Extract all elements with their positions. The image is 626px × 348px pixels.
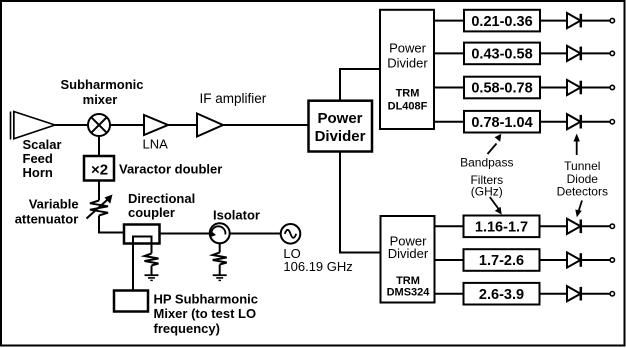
svg-text:Subharmonic: Subharmonic — [60, 77, 143, 92]
svg-text:Horn: Horn — [23, 165, 53, 180]
tunnel diode detector 2 — [567, 46, 615, 61]
svg-text:0.58-0.78: 0.58-0.78 — [471, 81, 532, 97]
resistor termination under coupler — [145, 254, 159, 275]
channel 5: wire — [435, 225, 464, 227]
svg-text:Tunnel: Tunnel — [564, 159, 600, 173]
label LO 106.19 GHz — [283, 246, 352, 274]
svg-text:Power: Power — [317, 110, 362, 127]
variable attenuator — [87, 199, 109, 219]
bandpass filter 0.43-0.58 — [464, 43, 540, 65]
svg-text:Varactor doubler: Varactor doubler — [119, 162, 222, 177]
svg-text:Power: Power — [389, 41, 427, 56]
bandpass filter 0.21-0.36 — [464, 10, 540, 32]
svg-text:Directional: Directional — [128, 191, 195, 206]
svg-text:0.78-1.04: 0.78-1.04 — [471, 115, 532, 131]
wire filter to diode — [540, 293, 568, 295]
bandpass filter 2.6-3.9 — [464, 283, 540, 305]
wire coupler to isolator — [160, 233, 210, 235]
svg-text:0.43-0.58: 0.43-0.58 — [471, 47, 532, 63]
svg-text:Scalar: Scalar — [23, 137, 62, 152]
arrow Detectors label to diode 5 — [575, 201, 582, 218]
wire horn to mixer — [55, 124, 88, 126]
tunnel diode detector 3 — [567, 80, 615, 95]
wire filter to diode — [540, 52, 567, 54]
svg-text:TRM: TRM — [396, 275, 420, 287]
svg-text:IF amplifier: IF amplifier — [200, 91, 267, 106]
wire attenuator to coupler — [99, 216, 124, 233]
bandpass filter 1.16-1.7 — [464, 216, 540, 238]
wire divider to TRM DMS324 — [340, 152, 381, 253]
isolator (circulator circle with arrow) — [210, 223, 230, 243]
label HP Subharmonic Mixer — [154, 292, 259, 337]
wire IF amp to power divider — [223, 124, 308, 126]
subharmonic mixer (circle with X) — [88, 114, 110, 136]
bandpass filter 0.78-1.04 — [464, 111, 540, 133]
wire mixer to LNA — [110, 124, 144, 126]
channel 7: wire — [435, 293, 464, 295]
wire filter to diode — [540, 259, 568, 261]
tunnel diode detector 6 — [567, 252, 615, 267]
wire divider to TRM DL408F — [340, 69, 380, 100]
svg-text:HP Subharmonic: HP Subharmonic — [154, 292, 259, 307]
amplifier LNA — [144, 115, 168, 135]
svg-text:Divider: Divider — [315, 128, 366, 145]
svg-text:106.19 GHz: 106.19 GHz — [283, 259, 352, 274]
label Bandpass Filters (GHz) — [460, 156, 513, 199]
ground under isolator resistor — [213, 275, 227, 280]
svg-text:Bandpass: Bandpass — [460, 156, 513, 170]
channel 1: wire — [434, 20, 464, 22]
power divider main box — [309, 101, 373, 152]
tunnel diode detector 4 — [567, 114, 615, 129]
svg-text:TRM: TRM — [396, 88, 420, 100]
wire LNA to IF amplifier — [168, 124, 197, 126]
label Tunnel Diode Detectors — [557, 159, 608, 199]
svg-text:2.6-3.9: 2.6-3.9 — [479, 287, 524, 303]
arrow (GHz) label to 1.16-1.7 filter — [490, 197, 502, 215]
amplifier IF — [197, 114, 223, 137]
svg-text:frequency): frequency) — [154, 321, 220, 336]
arrow Bandpass label to 0.78-1.04 filter — [488, 134, 502, 154]
svg-text:×2: ×2 — [91, 162, 108, 179]
wire filter to diode — [540, 20, 567, 22]
channel 6: wire — [435, 259, 464, 261]
channel 3: wire — [434, 87, 464, 89]
label Directional coupler — [128, 191, 195, 220]
resistor termination under isolator — [213, 243, 227, 274]
oscillator LO (circle with sine) — [281, 224, 301, 244]
svg-text:LNA: LNA — [143, 137, 169, 152]
tunnel diode detector 7 — [567, 286, 615, 301]
wire x2 to attenuator — [98, 181, 100, 201]
wire filter to diode — [540, 225, 568, 227]
directional coupler — [124, 225, 160, 244]
svg-text:Mixer (to test LO: Mixer (to test LO — [154, 306, 257, 321]
arrow Tunnel label to diode 4 — [574, 134, 580, 156]
svg-text:1.7-2.6: 1.7-2.6 — [479, 253, 524, 269]
svg-text:attenuator: attenuator — [15, 212, 79, 227]
bandpass filter 1.7-2.6 — [464, 249, 540, 271]
label Subharmonic mixer — [60, 77, 143, 107]
svg-text:Divider: Divider — [387, 56, 428, 71]
label Variable attenuator — [15, 197, 79, 227]
scalar feed horn antenna — [11, 112, 56, 140]
power divider TRM DL408F box — [380, 10, 434, 129]
wire filter to diode — [540, 121, 567, 123]
wire isolator to LO — [230, 233, 281, 235]
svg-text:Divider: Divider — [388, 246, 429, 261]
svg-text:Isolator: Isolator — [213, 208, 260, 223]
channel 2: wire — [434, 52, 464, 54]
svg-text:1.16-1.7: 1.16-1.7 — [475, 220, 528, 236]
HP subharmonic mixer box — [114, 291, 148, 312]
svg-text:mixer: mixer — [83, 92, 118, 107]
svg-text:Detectors: Detectors — [557, 185, 608, 199]
svg-text:(GHz): (GHz) — [471, 185, 503, 199]
svg-text:Feed: Feed — [23, 151, 53, 166]
varactor doubler x2 box — [84, 156, 114, 181]
channel 4: wire — [434, 121, 464, 123]
svg-text:Variable: Variable — [29, 197, 79, 212]
power divider TRM DMS324 box — [381, 216, 435, 303]
svg-text:DL408F: DL408F — [388, 101, 428, 113]
svg-text:0.21-0.36: 0.21-0.36 — [471, 14, 532, 30]
svg-text:DMS324: DMS324 — [387, 287, 431, 299]
ground under coupler resistor — [145, 275, 159, 280]
wire mixer to x2 doubler — [98, 136, 100, 156]
label Scalar Feed Horn — [23, 137, 62, 180]
bandpass filter 0.58-0.78 — [464, 77, 540, 99]
tunnel diode detector 1 — [567, 13, 615, 28]
svg-text:coupler: coupler — [128, 205, 175, 220]
tunnel diode detector 5 — [567, 219, 615, 234]
wire filter to diode — [540, 87, 567, 89]
